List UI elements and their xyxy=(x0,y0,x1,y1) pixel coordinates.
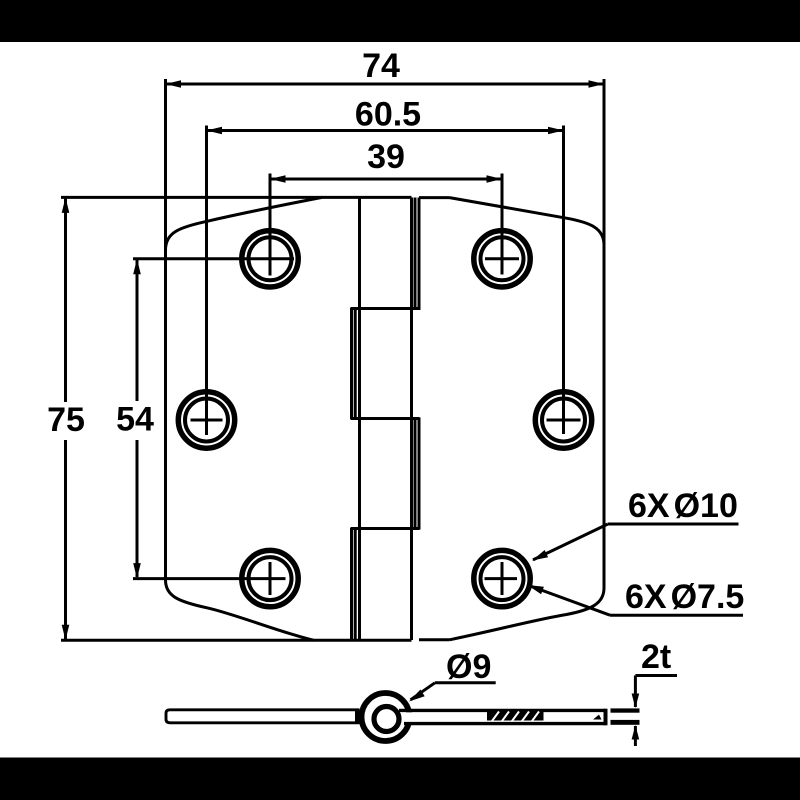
side view barrel outer ring xyxy=(362,693,410,741)
left leaf outline xyxy=(166,197,323,640)
svg-text:6XØ7.5: 6XØ7.5 xyxy=(625,578,744,616)
knuckle 1 right curl double lines xyxy=(415,198,419,311)
dimension 2t down arrow xyxy=(632,694,640,709)
dimension 2t upper shaft xyxy=(634,676,637,708)
dimension 74 right arrow xyxy=(589,80,605,88)
side view folded end top strip xyxy=(611,708,640,712)
label D9 leader arrowhead xyxy=(409,690,425,702)
dimension 74 line xyxy=(166,83,605,86)
svg-text:Ø9: Ø9 xyxy=(446,648,491,686)
hole bottom-right inner circle xyxy=(481,557,524,600)
label 6X D10 leader line xyxy=(533,524,608,560)
dimension 74 right extension line xyxy=(603,79,606,245)
hole middle-right outer circle xyxy=(535,392,591,448)
knuckle division line 2 xyxy=(351,417,420,420)
dimension 2t shoulder line xyxy=(635,674,677,677)
dimension 39 right extension line to top-right hole xyxy=(501,174,504,275)
barrel left main line xyxy=(358,198,361,641)
svg-text:75: 75 xyxy=(47,401,85,439)
hole middle-left outer circle xyxy=(178,392,234,448)
dimension 2t up arrow xyxy=(632,725,640,740)
side view hatched section patch xyxy=(487,712,544,722)
side view small weld triangle xyxy=(593,715,602,720)
knuckle division line 1 xyxy=(351,307,420,310)
hole top-right horizontal centerline xyxy=(485,257,519,260)
dimension 39 line xyxy=(270,178,502,181)
knuckle division line 3 xyxy=(351,527,420,530)
side view right leaf bar top edge xyxy=(399,709,606,712)
hole top-right outer circle xyxy=(474,231,530,287)
dimension 2t lower shaft xyxy=(634,726,637,746)
knuckle 2 left curl double lines xyxy=(352,308,356,420)
dimension 60.5 right extension line to middle-right hole xyxy=(562,126,565,435)
side view left leaf bar outline xyxy=(166,710,358,723)
right leaf outline xyxy=(450,198,605,640)
barrel right main line xyxy=(410,198,413,641)
dimension 60.5 line xyxy=(207,129,564,132)
svg-text:60.5: 60.5 xyxy=(355,96,421,134)
label 6X D10 leader arrowhead xyxy=(532,550,548,561)
dimension 74 left extension line xyxy=(164,79,167,250)
hinge bottom edge right of barrel xyxy=(419,638,450,641)
knuckle 4 left curl double lines xyxy=(352,528,356,641)
label 6X D7.5 leader line xyxy=(529,585,611,615)
hole bottom-right vertical centerline xyxy=(501,562,504,595)
dimension 54 top arrow xyxy=(133,259,141,275)
dimension 39 right arrow xyxy=(487,175,503,183)
svg-text:39: 39 xyxy=(367,138,405,176)
svg-text:6XØ10: 6XØ10 xyxy=(628,487,738,525)
side view right leaf bar end cap xyxy=(604,709,608,726)
dimension 54 bottom arrow xyxy=(133,563,141,579)
hole middle-right inner circle xyxy=(542,399,585,442)
hole bottom-left vertical centerline xyxy=(269,562,272,595)
hole middle-left inner circle xyxy=(185,399,228,442)
hole bottom-left outer circle xyxy=(242,550,298,606)
side view right leaf bar bottom edge xyxy=(404,722,606,725)
label 6X D10 underline xyxy=(608,523,739,526)
label 6X D7.5 leader arrowhead xyxy=(528,585,544,594)
dimension 54 bottom extension line through bottom-left hole xyxy=(133,577,286,580)
knuckle 3 right curl double lines xyxy=(415,418,419,530)
hinge top edge right of barrel xyxy=(419,196,450,199)
label 6X D7.5 underline xyxy=(610,614,743,617)
hinge bottom edge and 75 bottom extension line xyxy=(61,639,412,642)
dimension 54 line upper segment xyxy=(136,260,139,401)
hole top-right inner circle xyxy=(481,237,524,280)
hole middle-right horizontal centerline xyxy=(547,419,581,422)
top black bar xyxy=(0,0,800,42)
dimension 74 left arrow xyxy=(166,80,182,88)
dimension 60.5 left arrow xyxy=(207,127,223,135)
dimension 75 line upper segment xyxy=(64,198,67,402)
dimension 39 left arrow xyxy=(270,175,286,183)
svg-text:2t: 2t xyxy=(641,638,671,676)
dimension 54 top extension line through top-left hole xyxy=(133,257,294,260)
hole middle-left horizontal centerline xyxy=(191,419,223,422)
dimension 60.5 right arrow xyxy=(548,127,564,135)
hole top-left outer circle xyxy=(242,231,298,287)
side view left bar end cap xyxy=(355,709,359,724)
side view barrel inner circle xyxy=(374,707,399,732)
dimension 39 left extension line to top-left hole xyxy=(269,174,272,276)
label D9 leader line xyxy=(411,683,435,700)
dimension 75 bottom arrow xyxy=(62,625,70,641)
hole bottom-left inner circle xyxy=(249,557,292,600)
side view folded end bottom strip xyxy=(611,720,640,725)
hole bottom-right horizontal centerline xyxy=(485,577,518,580)
side view right leaf bar core cutting ring xyxy=(394,712,605,722)
hole bottom-right outer circle xyxy=(474,550,530,606)
hinge top edge and 75 top extension line xyxy=(61,196,412,199)
svg-text:74: 74 xyxy=(362,47,400,85)
dimension 75 top arrow xyxy=(62,197,70,213)
hole top-left inner circle xyxy=(249,237,292,280)
dimension 60.5 left extension line to middle-left hole xyxy=(205,126,208,436)
svg-text:54: 54 xyxy=(116,401,154,439)
bottom black bar xyxy=(0,758,800,800)
dimension 75 line lower segment xyxy=(64,440,67,639)
label D9 underline shoulder xyxy=(435,681,496,684)
dimension 54 line lower segment xyxy=(136,440,139,577)
